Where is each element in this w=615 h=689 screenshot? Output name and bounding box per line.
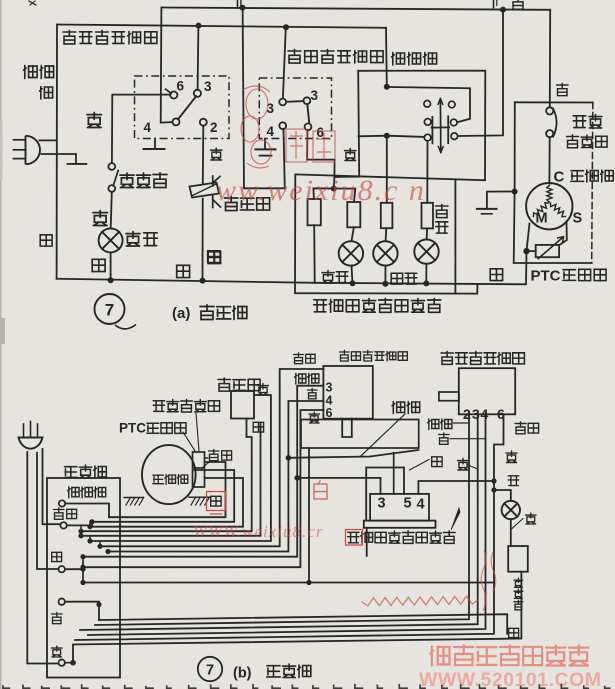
lamp L3 yellow (414, 239, 438, 263)
wire coffee bus (57, 25, 386, 28)
node J4 coffee bus (283, 24, 289, 30)
wire plug neutral stub (42, 154, 77, 164)
T1 pivot feed from top bus (161, 8, 173, 123)
label 显示器和速冻开关 (b) (348, 531, 455, 543)
svg-text:7: 7 (206, 663, 214, 679)
compressor relay cover (193, 452, 209, 487)
fridge thermostat box (b) (459, 368, 515, 414)
wire L4 stub (80, 527, 82, 536)
svg-text:(b): (b) (233, 666, 252, 682)
pointer 咖啡 float (360, 414, 405, 457)
wire blue from JB (65, 557, 83, 583)
caption (a) 电路图 (172, 305, 247, 322)
door switch S1 lever (113, 171, 118, 186)
node J9 display bus (382, 281, 388, 287)
wire display coffee riser (393, 453, 395, 494)
wire S11 white run (65, 602, 99, 620)
node J12 on x386 (384, 84, 390, 90)
resistor R1 (308, 199, 321, 225)
overload protector F1 bimetal arc (553, 108, 557, 138)
node L2 tap (89, 519, 94, 524)
wire L7 run (freezer 4) (108, 401, 323, 552)
label 过载 (overload) (573, 115, 602, 129)
pointer PTC启动器 to relay (183, 432, 195, 451)
wire plug-b earth lead (43, 449, 60, 524)
label 4 T1 (144, 120, 152, 135)
node J5 bottom bus (door lamp) (108, 277, 114, 283)
label 黄绿 in JB (54, 508, 77, 519)
wire J13 to ground G3 (487, 192, 515, 209)
wire L2b relay lower (92, 470, 234, 522)
label PTC启动器 (PTC starter) (531, 268, 607, 285)
label 4 freezer (b) (326, 394, 333, 408)
node L7 coffee tap (286, 455, 292, 461)
hatch ground left of compressor (124, 498, 144, 506)
label 压缩机 (compressor) (571, 170, 613, 182)
label 过载保护器 (b) (153, 399, 219, 412)
label 6 freezer (b) (326, 406, 333, 420)
node L8 display tap (294, 475, 300, 481)
resistor R4 (422, 203, 434, 229)
watermark red www script (b) (193, 522, 323, 541)
wire R1 to bus (313, 225, 316, 282)
wire black JB link (65, 662, 73, 664)
wire door switch return (73, 572, 521, 663)
wire L6 stub (89, 536, 91, 541)
wire y136 to S2-BL (359, 136, 425, 137)
footer WWW.520101.COM (red) (419, 669, 602, 689)
footer 家电维修资料网 (red) (431, 645, 589, 665)
wire white horizontal (515, 101, 593, 103)
wire bottom bus (57, 279, 315, 283)
door switch S1 contacts (108, 163, 115, 192)
artifact mark top-left (29, 1, 36, 5)
T1 pivot contact (173, 118, 180, 125)
label 黑 in JB (52, 646, 63, 657)
compressor unit dashed edge (592, 103, 593, 264)
svg-text:S: S (573, 211, 583, 227)
label 2 T1 (210, 120, 218, 135)
svg-text:6: 6 (326, 406, 333, 420)
wire T2-4 loop to top bus (243, 8, 285, 189)
label 6 T2 (317, 125, 325, 140)
wire x515 down to PTC loop (514, 192, 592, 264)
label 5 display (404, 496, 412, 512)
pointer coffee to wire2 (454, 422, 470, 424)
solenoid valve V1b box (231, 391, 254, 419)
svg-text:M: M (536, 211, 548, 227)
scan perforation ticks bottom edge (3, 684, 611, 689)
wire coffee bus drop at x=386 (385, 28, 388, 87)
label 门灯 (door lamp) (126, 232, 157, 247)
T2 contact 3 left (279, 99, 286, 106)
lamp L2 green (373, 241, 397, 265)
watermark red boxed chars (286, 129, 335, 162)
node J14 PTC left (523, 248, 529, 254)
watermark red box around 显 (346, 530, 363, 546)
label 咖啡色 in JB (68, 487, 106, 498)
PTC starter R5 arrow (538, 237, 563, 259)
caption curve under 7 (115, 325, 136, 329)
JB terminal coffee (59, 500, 65, 506)
label 黑 (black) T1 left (87, 113, 102, 128)
T1 terminal 3 contact (194, 90, 201, 97)
wire plug-b mid lead (37, 453, 57, 569)
label 6 T1 (177, 79, 185, 94)
label 黄绿 at relay (209, 449, 232, 460)
wire T2-3 up to coffee bus (283, 28, 286, 99)
wire J14 to PTC box (527, 250, 536, 252)
caption circle 7 (a) (95, 294, 125, 324)
wire J7 to R2 (334, 189, 356, 203)
node J11 on x386 (384, 133, 390, 139)
svg-text:WWW.520101.COM: WWW.520101.COM (419, 669, 602, 689)
label 咖啡色 (coffee color) left (24, 66, 54, 100)
node J13 ground tap (512, 189, 518, 195)
freezer thermostat stem (342, 419, 352, 437)
pointer white to wire4 (450, 438, 486, 440)
label 电磁阀 (solenoid valve) (225, 196, 270, 210)
svg-text:PTC: PTC (119, 421, 146, 436)
watermark red loops (241, 86, 271, 168)
label 黑 at wire4 (458, 459, 469, 471)
node J3 coffee bus (196, 23, 202, 29)
wire display-5 lead (366, 468, 404, 521)
wire L6 run (freezer yg) (100, 369, 323, 546)
svg-text:4: 4 (144, 120, 152, 135)
svg-text:(a): (a) (172, 305, 190, 322)
JB terminal blue (59, 566, 65, 572)
wire plug to left bus (40, 139, 57, 141)
svg-text:3: 3 (472, 406, 480, 422)
node L8 tap (105, 549, 110, 554)
wire display bus (315, 251, 527, 284)
wire L2 to bus (384, 266, 386, 284)
label 4 T2 (267, 124, 275, 139)
svg-text:PTC: PTC (531, 268, 561, 285)
label 蓝 at door switch (509, 628, 519, 637)
svg-text:ww.weixiu8.c n: ww.weixiu8.c n (216, 174, 426, 207)
wire J12 to S2-MR (390, 87, 470, 122)
plug P1 (mains) (14, 136, 40, 164)
label 3 fridge (472, 406, 480, 422)
pointer 蓝 to wire5 (410, 460, 430, 471)
svg-text:6: 6 (177, 79, 185, 94)
T2 bridge bar (286, 100, 303, 103)
artifact tick top edge x=240 (238, 0, 241, 7)
wire display-3 lead (297, 478, 380, 494)
T1 contact-6 tick (166, 89, 172, 93)
wire lamp to door switch (510, 519, 512, 546)
wire S2-BR to top bus drop (458, 10, 503, 136)
wire J7 to R1 (313, 188, 333, 199)
wire fridge-6 drop with jog (75, 414, 504, 640)
watermark red zigzag (362, 596, 478, 606)
fridge thermostat tab (439, 392, 459, 401)
junction box JB outline (47, 478, 120, 678)
label 蓝 at compressor base (211, 496, 221, 506)
wire R4 top to switch (426, 141, 428, 203)
label 门开关 (door switch) (120, 173, 167, 188)
wire L3 stub (89, 522, 91, 527)
wire R4 to lamp L3 (426, 228, 429, 239)
wire fridge-4 drop (88, 414, 486, 635)
label S winding (573, 211, 583, 227)
solenoid valve V1 (magnet valve) (190, 176, 221, 208)
switch S2 contact ML (424, 119, 431, 126)
wire L11 run (box2 corner) (83, 582, 494, 584)
wire R2 to lamp L1 (352, 227, 354, 241)
label C terminal (554, 169, 565, 186)
label 蓝 left of lamp (92, 259, 105, 271)
freezer mounting box (301, 420, 419, 449)
switch S2 contact MR (451, 119, 458, 126)
node L3 tap (87, 524, 92, 529)
label 黑 at solenoid (b) (258, 384, 269, 396)
overload protector F1 contacts (546, 107, 553, 137)
label 黄绿 right of fridge (515, 422, 539, 434)
T2 lever (307, 104, 309, 123)
label 蓝 below solenoid (208, 251, 220, 263)
door lamp DL2 (b) (502, 501, 520, 519)
label 蓝 near PTC (490, 269, 502, 281)
JB terminal black (59, 660, 65, 666)
wire L4 run (stub under blue label) (81, 424, 261, 536)
label 灯 (lamp b) (508, 476, 519, 486)
scan smudge left edge (0, 120, 5, 344)
wire L5 run (solenoid black) (90, 395, 271, 541)
thermostat T1 box (dash-dot) (135, 76, 230, 139)
wire fridge-2 drop (95, 414, 469, 625)
svg-text:4: 4 (267, 124, 275, 139)
label 3 T2 right (311, 88, 319, 103)
label PTC启动器 (b) (119, 421, 186, 436)
switch S2 actuator arrow (438, 99, 444, 153)
wire top bus right drop to overload protector (549, 10, 551, 108)
switch S2 contact TR (449, 101, 456, 108)
wire display-4 lead (418, 481, 494, 494)
pointer 过载保护器 to relay (196, 413, 199, 451)
watermark red squiggles right (481, 550, 496, 611)
resistor R2 (347, 202, 360, 227)
thermostat T2 box (dash-dot) (259, 78, 331, 139)
wire S to PTC right (560, 222, 567, 246)
node J10 display bus (423, 280, 429, 286)
node L5 tap (78, 533, 83, 538)
label 黄灯 (yellow lamp) vertical (436, 204, 449, 233)
node J18 white tap (96, 602, 101, 607)
label 3 freezer (b) (326, 381, 333, 395)
label 2 fridge (463, 406, 471, 422)
switch S2 bridge bars (431, 116, 449, 143)
T1 terminal 6 contact (170, 91, 177, 98)
compressor body (ellipse) (142, 445, 196, 504)
wire riser x=358 to top link (358, 71, 485, 181)
compressor M1 circle (526, 183, 572, 229)
ground G1 below T1 (144, 139, 165, 149)
svg-text:4: 4 (417, 497, 425, 513)
wire plug-b left lead (27, 452, 57, 664)
node J2 on top bus (500, 7, 506, 13)
wire L1 to bus (352, 266, 353, 284)
node J8 display bus (350, 280, 356, 286)
label 接线盒 (junction box) (64, 465, 106, 478)
pointer black doorlamp (512, 519, 523, 529)
wire L10 run (freezer 6) (83, 410, 323, 567)
label 白 left of freezer (308, 388, 318, 398)
label 显示器和速冻开关 (314, 298, 441, 312)
wire T2-6 staircase (307, 130, 359, 177)
svg-text:3: 3 (378, 496, 386, 512)
hatch ground right of compressor (189, 497, 210, 505)
scan left edge shadow (0, 0, 2, 689)
label 白 (white) near overload (557, 83, 569, 95)
label 门开关 vertical (b) (514, 578, 523, 610)
label 3 display (378, 496, 386, 512)
svg-text:WWW.weixiu8.cr: WWW.weixiu8.cr (193, 522, 323, 541)
label 咖啡 floating (b) (392, 402, 420, 414)
label 冷藏室温控器 (b) (441, 351, 524, 364)
wire L2 run (relay third) (90, 478, 243, 527)
wire switch to door lamp (111, 192, 112, 229)
wire solenoid to bottom bus (202, 199, 204, 281)
label 黑 at wire6 (506, 451, 517, 463)
svg-text:6: 6 (317, 125, 325, 140)
ground G2 below T2 (256, 139, 276, 156)
node L6 tap (87, 538, 92, 543)
label 蓝 at solenoid (b) (253, 422, 263, 432)
wire S12 long line (99, 614, 507, 634)
wire T1-2 down to solenoid (202, 126, 205, 184)
label M winding (536, 211, 548, 227)
JB terminal yellowgreen (60, 522, 66, 528)
label 白 (white) clipped at top edge (512, 0, 524, 9)
label 红灯 (red lamp) (322, 271, 348, 284)
label 黑 at door lamp (526, 513, 537, 524)
T1 lever (3 to pivot) (178, 96, 196, 119)
label 压缩机 (b) (153, 475, 188, 485)
label 冷冻室温控器 (b) (340, 350, 408, 361)
wire L3 run (solenoid blue) (81, 419, 252, 532)
freezer thermostat box (b) (323, 366, 372, 419)
node J16 wire4 tee (491, 478, 496, 483)
wire staircase drop to lamp node (333, 177, 336, 189)
node J15 lamp tee (491, 487, 496, 492)
label 咖啡 under fridge (428, 419, 452, 430)
wire display-5 base stub (366, 528, 368, 556)
node L10 tap (80, 565, 85, 570)
switch S2 contact BR (451, 133, 458, 140)
caption circle 7 (b) (198, 657, 222, 681)
wire R3 to lamp L2 (385, 228, 388, 241)
display unit base (b) (364, 521, 436, 528)
resistor R3 (381, 203, 393, 228)
ground G3 (477, 209, 497, 214)
wire F1 to compressor C (548, 137, 550, 183)
svg-text:7: 7 (105, 301, 114, 320)
lamp L1 red (339, 241, 363, 265)
label 咖啡色 (coffee) top middle (392, 53, 437, 66)
label 6 fridge (497, 406, 505, 422)
pointer black to wire (468, 465, 478, 469)
artifact tick top edge x=494 (494, 0, 497, 8)
wire lamp feed (b) (494, 490, 511, 501)
node L2 tap2 (89, 519, 94, 524)
label 蓝 mid2 (208, 252, 220, 264)
svg-text:2: 2 (210, 120, 218, 135)
wire fridge-3 drop (80, 414, 478, 630)
label 黑 below T2 (345, 149, 357, 161)
compressor M1 windings (534, 186, 566, 217)
JB terminal white (59, 599, 65, 605)
wire L8 run (freezer 3) (83, 386, 323, 557)
node L9b tap (80, 554, 85, 559)
switch S2 contact TL (424, 101, 431, 108)
pointer 黄绿 to relay (203, 461, 211, 467)
node J7 lamp feed (331, 186, 337, 192)
PTC starter R5 box (536, 245, 559, 257)
wire L3 to bus (425, 264, 427, 284)
ground bar plug (68, 163, 87, 165)
watermark weixiu script (216, 174, 426, 207)
label 蓝 mid1 (177, 265, 190, 277)
wire L2 yellowgreen from JB (67, 522, 92, 526)
label 黑 left of freezer (309, 412, 320, 423)
wire M to PTC node (527, 224, 530, 252)
wire L1 run (relay) (109, 462, 226, 517)
wire L1 coffee from JB (65, 504, 109, 518)
label 3 T1 (204, 79, 212, 94)
wire left drop x=57 (56, 25, 58, 279)
wire T1-6 black to door switch (112, 95, 170, 163)
svg-text:5: 5 (404, 496, 412, 512)
svg-text:3: 3 (326, 381, 333, 395)
node L7 tap (97, 544, 102, 549)
svg-text:3: 3 (311, 88, 319, 103)
watermark red 白 (314, 481, 327, 500)
display unit box (b) (370, 494, 429, 521)
label 3 T2 left (267, 101, 275, 116)
svg-text:3: 3 (204, 79, 212, 94)
T2 contact 4 (279, 122, 286, 129)
node J17 black tee (70, 660, 76, 666)
label 黑 above door lamp (93, 211, 108, 226)
label 咖啡 left of freezer (295, 374, 319, 385)
wire T1-3 up to coffee bus (197, 26, 200, 90)
node L9 tap blue (80, 567, 85, 572)
node J6 bottom bus (solenoid) (200, 278, 206, 284)
wire lamp to bottom bus (110, 252, 112, 280)
door lamp DL1 (99, 228, 123, 252)
label 绿灯 (green lamp) (391, 273, 417, 284)
label 冷冻室温控器 (freezer thermostat) (288, 49, 383, 63)
label 黄绿 left of freezer (294, 353, 316, 364)
pen mark pointer (451, 508, 460, 530)
wire L7 stub (99, 541, 101, 546)
label 冷藏室温控器 (fridge thermostat) (63, 30, 157, 44)
label 白 in JB (52, 612, 63, 623)
label 4 fridge (481, 406, 489, 422)
door switch box (b) (508, 546, 528, 572)
label 蓝 far left (40, 235, 52, 246)
label 蓝 at display (b) (432, 457, 442, 467)
node L4 tap (78, 529, 83, 534)
label 黑 near T1-2 (211, 148, 223, 160)
caption (b) 接线图 (233, 664, 311, 682)
T2 contact 3 right (304, 97, 311, 104)
node J1 on top bus (240, 5, 246, 11)
display box right edge (454, 180, 456, 293)
